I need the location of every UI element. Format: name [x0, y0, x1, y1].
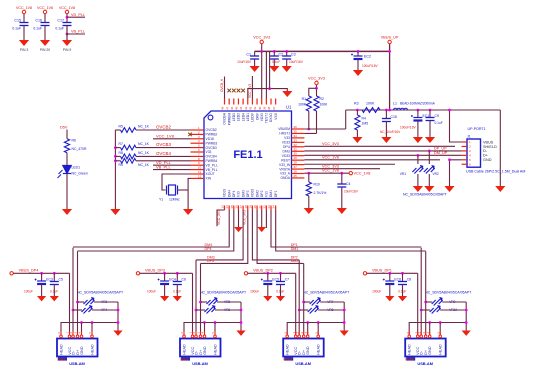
svg-text:VD33: VD33 [251, 189, 255, 197]
USB2 pin GND [204, 332, 206, 339]
junction [307, 172, 310, 175]
svg-text:VBUS: VBUS [483, 140, 494, 144]
wire DP2 [252, 210, 299, 260]
svg-text:NC_1K: NC_1K [138, 151, 150, 155]
svg-text:16: 16 [235, 205, 239, 209]
pin 22 stub [265, 206, 267, 211]
svg-text:VBUS_DP3: VBUS_DP3 [145, 268, 165, 272]
LED LED1 [58, 166, 72, 179]
wire [356, 110, 358, 115]
svg-text:VBUS_DP1: VBUS_DP1 [372, 268, 392, 272]
svg-text:Y1: Y1 [159, 198, 163, 202]
junction [285, 50, 288, 53]
wire [201, 301, 208, 303]
wire [402, 273, 404, 281]
svg-text:HEAD: HEAD [408, 344, 412, 355]
ground [62, 40, 72, 46]
svg-text:C17: C17 [57, 19, 64, 23]
pin 23 stub [270, 206, 272, 211]
wire [273, 59, 275, 66]
ground [276, 296, 285, 301]
svg-text:PIN 3: PIN 3 [20, 48, 29, 52]
svg-text:R9: R9 [119, 163, 123, 167]
junction [317, 321, 320, 324]
connector USB2 USB-AM [180, 339, 221, 357]
connector USB3 USB-AM [283, 339, 324, 357]
svg-text:R7: R7 [119, 142, 123, 146]
svg-text:R10: R10 [314, 183, 320, 187]
power symbol VCC_1V8 [43, 10, 46, 13]
wire [44, 14, 46, 23]
svg-text:LEDV: LEDV [251, 112, 255, 121]
svg-text:14: 14 [225, 205, 229, 209]
pin 29 stub [292, 159, 305, 161]
svg-text:34: 34 [294, 134, 298, 138]
wire [299, 309, 308, 311]
capacitor EC6 [383, 279, 395, 285]
svg-text:LED1: LED1 [72, 166, 81, 170]
wire [304, 132, 316, 134]
wire VCC [417, 273, 419, 335]
wire GND bus [184, 323, 241, 339]
ground [263, 296, 272, 301]
ground [495, 186, 505, 192]
svg-text:19: 19 [249, 205, 253, 209]
varistor VR8 [308, 305, 319, 313]
svg-text:0.1uF: 0.1uF [12, 27, 21, 31]
wire VBUSM [304, 128, 345, 130]
connector USB1 USB-AM [57, 339, 98, 357]
svg-text:HEAD: HEAD [439, 344, 443, 355]
NC mark [232, 89, 236, 93]
wire [320, 301, 344, 303]
svg-text:10uF/16V: 10uF/16V [344, 190, 359, 194]
ground [113, 331, 122, 336]
junction [260, 50, 263, 53]
svg-text:LED1: LED1 [246, 113, 250, 121]
USB4 pin HEAD [408, 332, 410, 339]
wire [429, 110, 431, 118]
svg-text:USB-AM: USB-AM [295, 361, 311, 366]
power symbol VBUS_DP3 [136, 272, 139, 275]
ground [269, 66, 279, 72]
svg-text:V33I: V33I [274, 113, 278, 120]
wire HEAD [439, 323, 441, 336]
USB2 pin HEAD [214, 332, 216, 339]
svg-text:12: 12 [198, 174, 202, 178]
pin 44 stub [242, 99, 244, 105]
power symbol VCC_3V3 [315, 81, 318, 84]
svg-text:R6: R6 [72, 139, 76, 143]
capacitor C16 [41, 23, 50, 26]
junction [266, 272, 269, 275]
pin-1 marker [208, 115, 213, 120]
crystal Y1 [167, 185, 178, 195]
junction [357, 50, 360, 53]
wire [308, 111, 310, 129]
svg-text:OVCB4: OVCB4 [206, 155, 217, 159]
capacitor C4 [337, 184, 346, 187]
USB1 pin GND [81, 332, 83, 339]
pin 9 stub [191, 164, 205, 166]
label USB4 [406, 357, 415, 360]
wire [73, 309, 82, 311]
USB1 pin VCC [69, 332, 71, 339]
wire [428, 174, 430, 186]
svg-text:OVCB3: OVCB3 [206, 146, 217, 150]
junction [417, 154, 420, 157]
svg-text:LED3: LED3 [232, 113, 236, 121]
wire [286, 51, 288, 56]
wire [215, 309, 241, 311]
pin 1 stub [191, 129, 205, 131]
ground [398, 296, 407, 301]
wire [341, 173, 343, 184]
svg-text:EC2: EC2 [364, 55, 371, 59]
svg-text:VCC_3V3: VCC_3V3 [308, 77, 325, 81]
wire [261, 210, 263, 227]
svg-text:DM_UP: DM_UP [434, 151, 448, 155]
svg-text:DP4: DP4 [232, 190, 236, 197]
J1 pin 2 stub [462, 145, 467, 147]
pin 11 stub [191, 173, 205, 175]
junction [307, 128, 310, 131]
junction [388, 109, 391, 112]
capacitor C6 [173, 282, 182, 285]
wire [44, 26, 46, 41]
svg-text:D5V: D5V [60, 126, 68, 130]
capacitor EC4 [158, 279, 170, 285]
svg-text:NC_1K: NC_1K [138, 163, 150, 167]
svg-text:0.1uF: 0.1uF [55, 27, 64, 31]
junction [417, 109, 420, 112]
pin 2 stub [191, 133, 205, 135]
pin 14 stub [228, 206, 230, 211]
svg-text:OVCB4: OVCB4 [156, 151, 171, 156]
svg-text:47: 47 [225, 106, 229, 110]
wire [41, 284, 43, 296]
pin 46 stub [233, 99, 235, 105]
svg-text:VCC_1V8: VCC_1V8 [322, 169, 339, 173]
svg-text:DM2: DM2 [291, 259, 299, 263]
junction [117, 309, 120, 312]
capacitor C7 [276, 282, 285, 285]
wire [429, 121, 431, 138]
wire [254, 59, 256, 66]
pin 35 stub [292, 132, 305, 134]
wire DM4 [73, 210, 229, 247]
wire [286, 59, 288, 66]
capacitor C9 [426, 118, 435, 121]
svg-text:VB_PLL: VB_PLL [206, 168, 218, 172]
wire [385, 110, 387, 119]
svg-text:LED4: LED4 [241, 113, 245, 121]
wire D+ [303, 264, 305, 336]
svg-text:17: 17 [239, 205, 243, 209]
wire [53, 285, 55, 297]
capacitor C18 [382, 119, 391, 122]
wire VCC_1V8 [304, 159, 440, 161]
USB3 pin HEAD [317, 332, 319, 339]
ground [282, 66, 292, 72]
svg-text:C18: C18 [391, 115, 397, 119]
svg-text:C7: C7 [285, 278, 289, 282]
wire VB_PLL [153, 169, 191, 171]
wire VCC [295, 273, 297, 335]
junction [40, 272, 43, 275]
svg-text:VBUS_DP4: VBUS_DP4 [19, 268, 39, 272]
svg-text:GND: GND [483, 158, 492, 162]
USB1 pin HEAD [91, 332, 93, 339]
varistor VR10 [430, 305, 441, 313]
wire [273, 51, 275, 56]
USB4 pin HEAD [439, 332, 441, 339]
svg-text:DMU: DMU [282, 149, 290, 153]
NC mark [241, 89, 245, 93]
wire OVCB_H stub [224, 77, 226, 99]
svg-text:NC_SDV5AB04/05CA/05APT: NC_SDV5AB04/05CA/05APT [303, 291, 350, 295]
wire [94, 301, 118, 303]
pin 25 stub [292, 177, 305, 179]
pin 30 stub [292, 155, 305, 157]
node VB_PLL junction [66, 33, 69, 36]
capacitor C5 [50, 282, 59, 285]
pin 13 stub [224, 206, 226, 211]
capacitor EC2 [351, 54, 363, 60]
svg-text:100uF: 100uF [372, 290, 381, 294]
svg-text:38: 38 [267, 106, 271, 110]
wire [442, 301, 466, 303]
pin 12 stub [191, 177, 205, 179]
wire VBUS_DP4 [13, 272, 69, 274]
wire GND [307, 323, 309, 336]
svg-text:DP2: DP2 [260, 190, 264, 197]
wire [417, 110, 419, 118]
USB3 pin HEAD [286, 332, 288, 339]
svg-text:DP3: DP3 [246, 190, 250, 197]
wire [308, 173, 310, 182]
capacitor C8 [398, 282, 407, 285]
junction [428, 150, 431, 153]
wire VCC_3V3 [304, 163, 395, 165]
junction [240, 309, 243, 312]
pin 38 stub [270, 99, 272, 105]
junction [401, 272, 404, 275]
svg-text:NC_10uF/16V: NC_10uF/16V [380, 130, 401, 134]
svg-text:USB4: USB4 [405, 357, 414, 361]
ground [37, 296, 46, 301]
svg-text:VCC_1V8: VCC_1V8 [156, 133, 175, 138]
ground [340, 331, 349, 336]
svg-text:27: 27 [294, 165, 298, 169]
svg-text:OVCB2: OVCB2 [156, 125, 171, 130]
ground [257, 227, 266, 232]
svg-text:NC_SDV5AB04/05C/05APT: NC_SDV5AB04/05C/05APT [403, 193, 448, 197]
ground [110, 209, 120, 215]
svg-text:23: 23 [267, 205, 271, 209]
svg-text:C6: C6 [182, 278, 186, 282]
varistor VR3 [84, 297, 95, 305]
ground [424, 186, 434, 192]
wire GND bus [409, 323, 466, 339]
pin 24 stub [275, 206, 277, 211]
varistor VR7 [310, 297, 321, 305]
svg-text:NC_SDV5AB04/05CA/05APT: NC_SDV5AB04/05CA/05APT [200, 291, 247, 295]
svg-text:GND: GND [203, 346, 207, 355]
ground [40, 40, 50, 46]
junction [340, 172, 343, 175]
svg-text:VBUS_DP2: VBUS_DP2 [253, 268, 273, 272]
wire [308, 196, 310, 208]
svg-text:HRSTJ: HRSTJ [279, 132, 290, 136]
wire DM2 [257, 210, 304, 263]
wire [136, 160, 191, 162]
svg-text:25: 25 [294, 174, 298, 178]
power symbol VBUS_DP4 [10, 272, 13, 275]
svg-text:VCC_3V3: VCC_3V3 [248, 84, 252, 98]
junction [465, 321, 468, 324]
wire [196, 309, 205, 311]
junction [163, 272, 166, 275]
ground [173, 296, 182, 301]
USB4 pin VCC [417, 332, 419, 339]
pin 27 stub [292, 168, 305, 170]
wire D- [298, 260, 300, 335]
svg-text:45: 45 [235, 106, 239, 110]
svg-text:46: 46 [230, 106, 234, 110]
wire D+ [77, 251, 79, 335]
svg-text:V33_A: V33_A [280, 172, 291, 176]
ground [413, 137, 423, 143]
svg-text:C9: C9 [435, 114, 439, 118]
svg-text:VCC_3V3: VCC_3V3 [322, 142, 339, 146]
wire [66, 26, 68, 41]
resistor R4 [355, 115, 360, 130]
resistor R9 [121, 158, 137, 163]
svg-text:VD33: VD33 [223, 189, 227, 197]
pin 40 stub [261, 99, 263, 105]
junction [306, 321, 309, 324]
USB2 pin HEAD [183, 332, 185, 339]
pin 32 stub [292, 146, 305, 148]
svg-text:HEAD: HEAD [214, 344, 218, 355]
connector USB4 USB-AM [405, 339, 446, 357]
wire 3V3 bus [255, 50, 390, 52]
svg-text:PWRBH: PWRBH [227, 112, 231, 125]
ground [425, 137, 435, 143]
ground [413, 186, 423, 192]
junction [343, 309, 346, 312]
svg-text:48: 48 [221, 106, 225, 110]
svg-text:VD_PLL: VD_PLL [71, 13, 85, 17]
power symbol VBUS_DP1 [363, 272, 366, 275]
wire DP_UP [304, 150, 461, 152]
svg-text:V33: V33 [265, 191, 269, 197]
wire HEAD [317, 323, 319, 336]
svg-text:DRV: DRV [255, 112, 259, 120]
svg-text:DP1: DP1 [274, 190, 278, 197]
pin 43 stub [247, 99, 249, 105]
svg-text:HEAD: HEAD [60, 344, 64, 355]
svg-text:DM4: DM4 [227, 190, 231, 197]
svg-text:R1: R1 [302, 97, 306, 101]
svg-text:BEAD-100MHZ/2000mA: BEAD-100MHZ/2000mA [400, 102, 436, 106]
label USB3 [284, 357, 293, 360]
svg-text:0.1uF: 0.1uF [272, 60, 280, 64]
wire [357, 59, 359, 70]
svg-text:SHIELD: SHIELD [483, 145, 497, 149]
svg-text:12MHz: 12MHz [169, 198, 180, 202]
wire [66, 174, 68, 210]
varistor VR1 [412, 165, 423, 173]
svg-text:XOUT: XOUT [206, 172, 215, 176]
wire stub [265, 210, 267, 228]
capacitor C17 [63, 23, 72, 26]
ground [183, 209, 193, 215]
power symbol VCC_3V3 [260, 40, 263, 43]
wire DM3 [196, 210, 243, 260]
wire D- [195, 260, 197, 335]
svg-text:31: 31 [294, 147, 298, 151]
svg-text:VRSTA: VRSTA [279, 167, 291, 171]
svg-text:1M5: 1M5 [362, 122, 369, 126]
USB4 pin GND [429, 332, 431, 339]
svg-text:R8: R8 [119, 151, 123, 155]
wire [465, 302, 467, 331]
wire [280, 273, 282, 281]
pin 17 stub [242, 206, 244, 211]
wire [117, 302, 119, 331]
resistor R6 [64, 139, 69, 153]
wire XOUT [162, 174, 191, 190]
wire [385, 122, 387, 138]
ground [50, 296, 59, 301]
wire VBUS_DP1 [367, 272, 418, 274]
NC mark [227, 89, 231, 93]
USB1 pin D- [72, 332, 74, 339]
USB4 pin D+ [425, 332, 427, 339]
resistor R2 [314, 96, 319, 111]
svg-text:2.7K/1%: 2.7K/1% [314, 191, 327, 195]
wire [23, 26, 25, 41]
junction [273, 50, 276, 53]
svg-text:R3: R3 [354, 102, 359, 106]
svg-text:VBUS_UP: VBUS_UP [381, 36, 399, 40]
svg-text:13: 13 [221, 205, 225, 209]
svg-text:28: 28 [294, 161, 298, 165]
wire GND [429, 323, 431, 336]
svg-text:DM1: DM1 [269, 190, 273, 197]
svg-text:NC_Green: NC_Green [72, 172, 88, 176]
svg-text:0.1uF: 0.1uF [33, 27, 42, 31]
J1 pin 5 stub [462, 159, 467, 161]
svg-text:37: 37 [272, 106, 276, 110]
power symbol VCC_1V8 [65, 10, 68, 13]
svg-text:LED2: LED2 [237, 113, 241, 121]
svg-text:43: 43 [244, 106, 248, 110]
power symbol VCC_1V8 [22, 10, 25, 13]
svg-text:GND: GND [80, 346, 84, 355]
wire [389, 273, 391, 281]
wire VCC_1V8 [153, 138, 191, 140]
junction [388, 50, 391, 53]
wire [318, 309, 344, 311]
wire VCC_1V8 [304, 168, 380, 170]
svg-text:FE1.1: FE1.1 [233, 149, 262, 161]
junction [448, 109, 451, 112]
pin 41 stub [256, 99, 258, 105]
wire [66, 26, 68, 41]
